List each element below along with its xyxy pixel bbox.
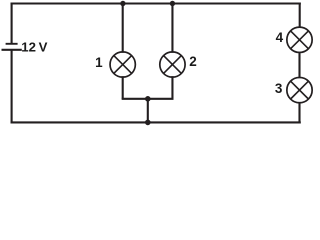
wire branch 1 upper: [122, 4, 124, 53]
junction dot bottom rail: [145, 120, 151, 126]
wire right middle (between lamp 4 and lamp 3): [298, 52, 300, 78]
lamp label 1: [95, 55, 103, 70]
battery B1 top plate (short): [6, 43, 18, 45]
svg-text:4: 4: [276, 30, 284, 45]
wire centre drop: [147, 99, 149, 123]
wire left lower (battery negative lead): [11, 50, 13, 124]
junction dot top right branch: [170, 1, 175, 6]
lamp label 3: [275, 81, 283, 96]
svg-text:3: 3: [275, 81, 283, 96]
wire branch 1 lower: [122, 76, 124, 99]
svg-text:1: 1: [95, 55, 103, 70]
lamp label 2: [189, 54, 197, 69]
wire branch 2 lower: [171, 76, 173, 99]
wire bottom rail: [11, 121, 301, 123]
wire parallel join segment: [122, 98, 174, 100]
wire branch 2 upper: [171, 4, 173, 53]
lamp L2: [160, 52, 185, 77]
wire top rail: [11, 2, 301, 4]
lamp L3: [287, 77, 312, 102]
wire right lower: [298, 102, 300, 123]
junction dot top left branch: [120, 1, 125, 6]
lamp L1: [110, 52, 135, 77]
lamp label 4: [276, 30, 284, 45]
svg-text:2: 2: [189, 54, 197, 69]
wire right upper: [299, 3, 301, 28]
battery B1 bottom plate (long): [2, 49, 22, 51]
wire left upper (battery positive lead): [11, 4, 13, 44]
battery value label 12 V: [21, 39, 47, 54]
junction dot join segment: [145, 96, 151, 102]
svg-text:12 V: 12 V: [21, 39, 47, 54]
lamp L4: [287, 27, 312, 52]
